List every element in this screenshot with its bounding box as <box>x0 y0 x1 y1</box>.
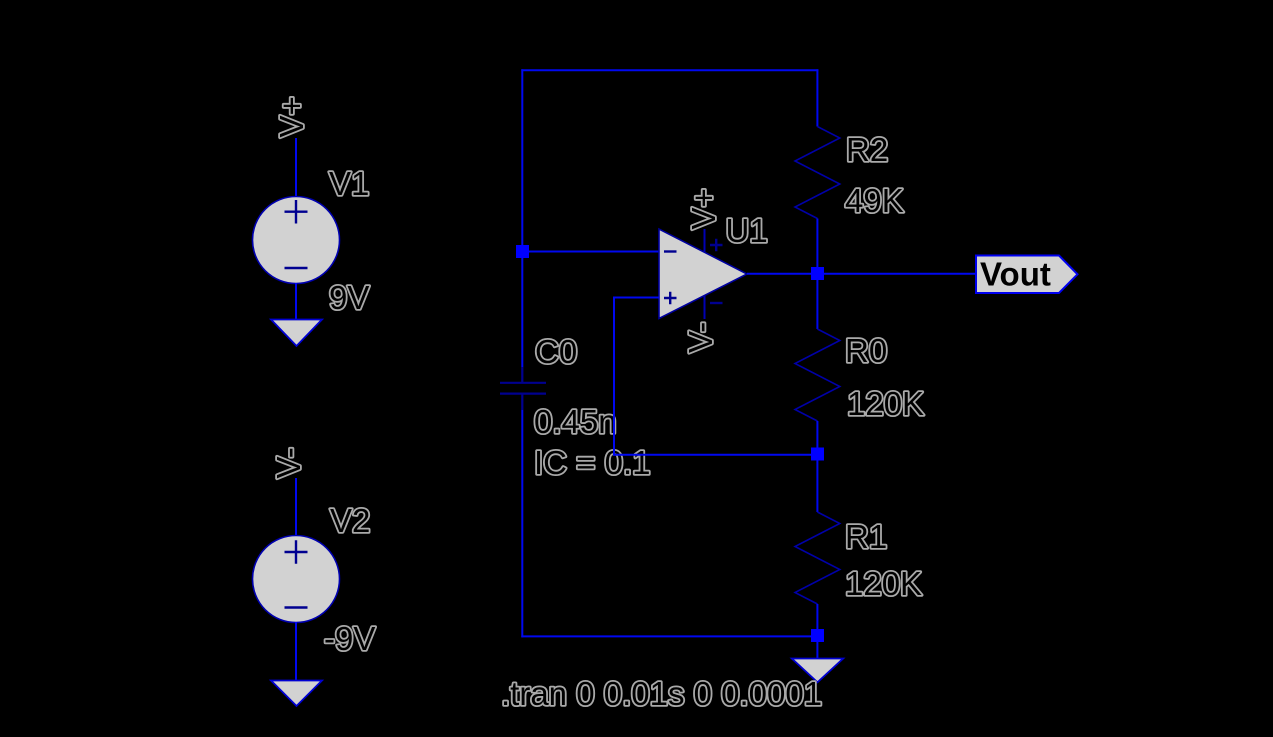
svg-text:R2: R2 <box>846 131 888 168</box>
wire <box>613 297 615 456</box>
wire <box>816 280 818 329</box>
resistor R1 <box>795 512 840 604</box>
V1 plus marker <box>285 200 308 224</box>
svg-text:-9V: -9V <box>324 620 375 657</box>
ground (V2) <box>271 681 322 707</box>
svg-text:V2: V2 <box>330 502 370 539</box>
svg-text:R1: R1 <box>845 518 887 555</box>
U1 inverting input marker <box>664 250 677 252</box>
U1 V- power marker <box>710 302 723 304</box>
svg-text:IC = 0.1: IC = 0.1 <box>534 444 650 481</box>
svg-text:120K: 120K <box>845 565 922 602</box>
wire <box>529 251 659 253</box>
U1 V+ power marker <box>710 239 723 252</box>
svg-text:120K: 120K <box>847 385 924 422</box>
wire <box>521 69 523 367</box>
wire <box>816 421 818 448</box>
resistor R2 <box>795 127 840 219</box>
wire <box>816 461 818 513</box>
wire <box>816 604 818 630</box>
wire <box>816 69 818 126</box>
svg-text:Vout: Vout <box>980 256 1051 293</box>
flag Vout <box>976 256 1078 294</box>
V2 plus marker <box>285 540 308 564</box>
wire <box>816 642 818 660</box>
wire <box>521 410 523 637</box>
wire <box>824 273 977 275</box>
wire <box>295 478 297 537</box>
wire <box>295 138 297 198</box>
op-amp U1 <box>659 229 747 319</box>
V1 minus marker <box>285 267 308 269</box>
V2 minus marker <box>285 606 308 608</box>
svg-text:0.45n: 0.45n <box>534 403 617 440</box>
junction node Vout <box>811 267 824 280</box>
capacitor C0 <box>500 367 546 410</box>
svg-text:V1: V1 <box>329 165 369 202</box>
svg-text:V-: V- <box>682 322 719 353</box>
wire <box>295 622 297 682</box>
U1 V+ pin stub <box>704 229 706 252</box>
junction node C (bottom rail) <box>811 629 824 642</box>
resistor R0 <box>795 329 840 421</box>
svg-text:C0: C0 <box>535 333 577 370</box>
svg-text:U1: U1 <box>726 212 768 249</box>
wire <box>295 283 297 321</box>
svg-text:49K: 49K <box>845 182 904 219</box>
wire <box>613 454 818 456</box>
wire <box>521 69 818 71</box>
junction node B (feedback divider) <box>811 448 824 461</box>
wire <box>747 273 812 275</box>
U1 non-inverting input marker <box>664 292 677 305</box>
wire <box>614 297 659 299</box>
svg-text:V-: V- <box>270 447 307 478</box>
U1 V- pin stub <box>704 296 706 319</box>
svg-text:V+: V+ <box>273 96 310 137</box>
svg-text:V+: V+ <box>685 188 722 229</box>
svg-text:.tran 0 0.01s 0 0.0001: .tran 0 0.01s 0 0.0001 <box>501 675 822 712</box>
junction node A (inverting input) <box>516 245 529 258</box>
voltage source V2 <box>253 536 340 623</box>
svg-text:R0: R0 <box>845 332 887 369</box>
wire <box>816 219 818 269</box>
wire <box>521 635 818 637</box>
svg-text:9V: 9V <box>329 279 369 316</box>
ground (bottom) <box>792 659 843 683</box>
ground (V1) <box>271 320 322 347</box>
voltage source V1 <box>253 197 340 284</box>
